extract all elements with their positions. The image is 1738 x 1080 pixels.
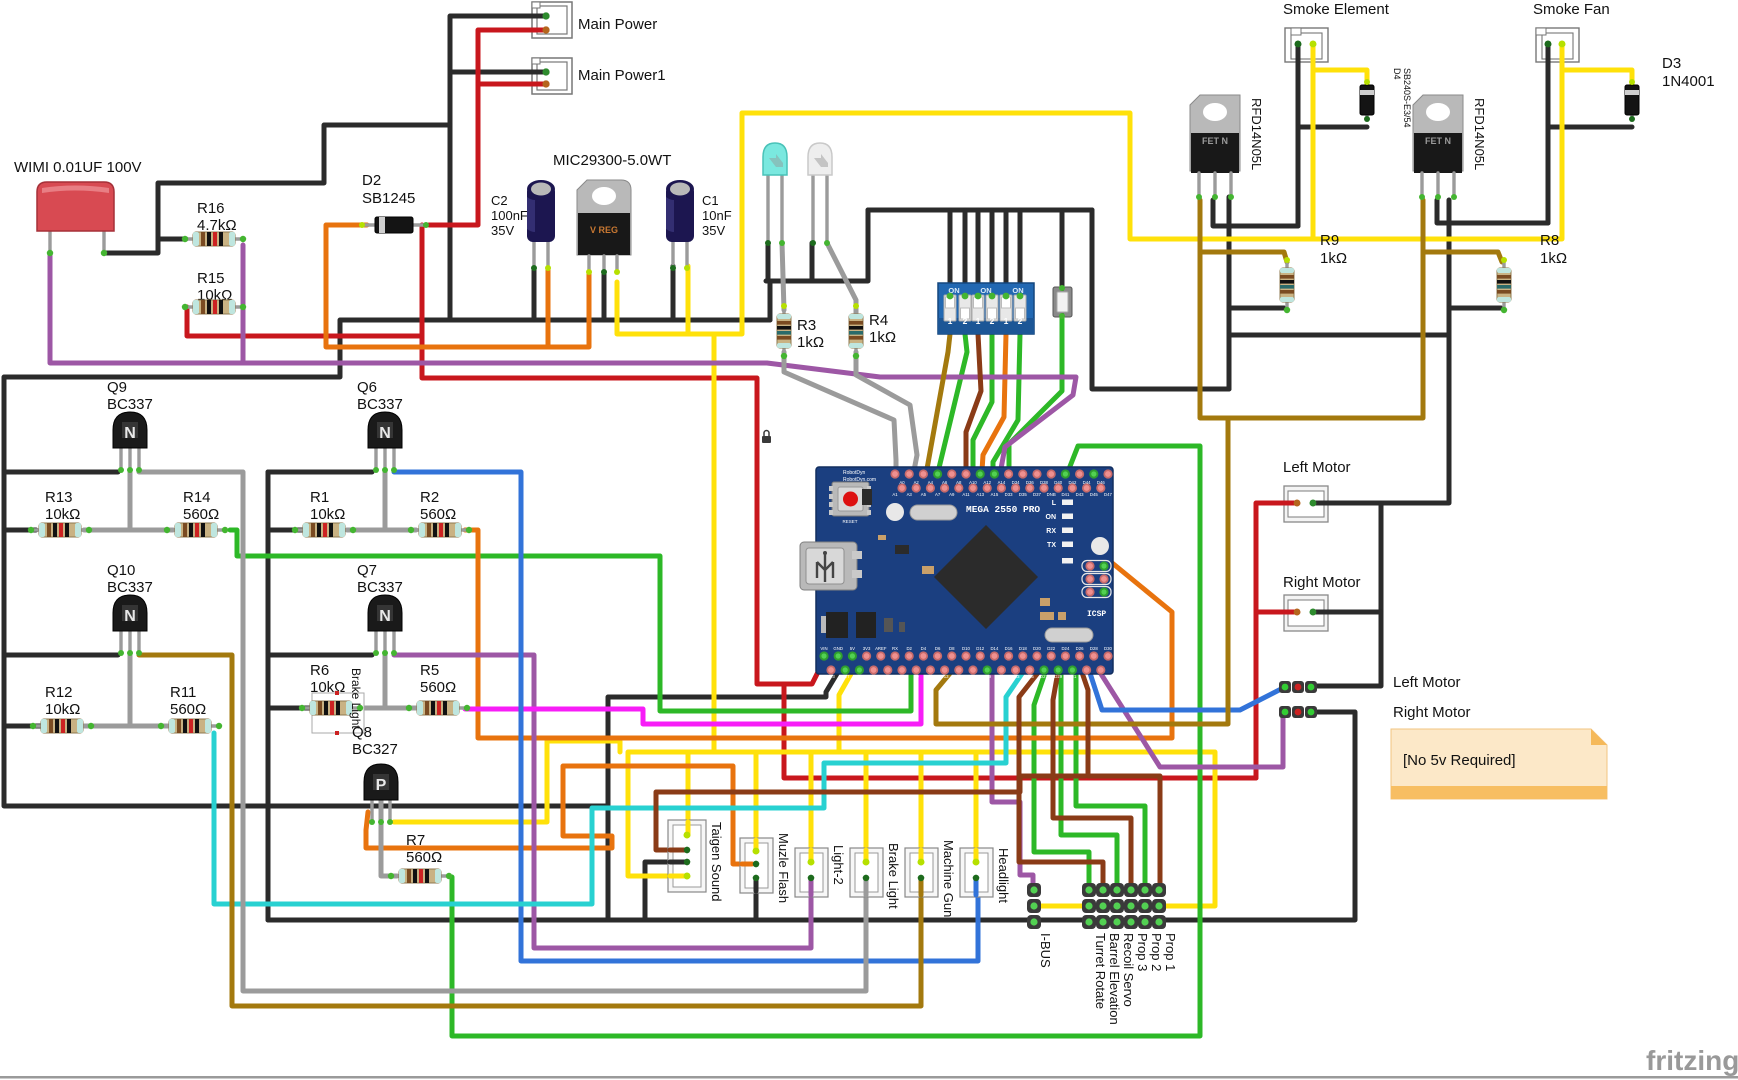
wire stub right motor red [1284,610,1297,615]
wire 5V drop [974,752,979,862]
ICSP pins [1085,561,1108,596]
wire stub machine sig [919,878,924,895]
wire Q9 emitter [4,470,118,475]
svg-text:WIMI 0.01UF 100V: WIMI 0.01UF 100V [14,159,142,176]
svg-text:RFD14N05L: RFD14N05L [1472,98,1487,170]
wire R6 left [268,706,316,711]
wire motor red 2 [1254,612,1259,778]
svg-text:D16: D16 [1005,646,1013,651]
svg-text:Q10: Q10 [107,562,135,579]
wire main power1 red [478,82,546,87]
svg-text:A5: A5 [921,492,927,497]
wire LED gnd link [766,210,868,281]
wire taigen signal [656,776,1085,850]
header Prop 3 [1124,883,1138,929]
svg-text:D44: D44 [1083,480,1091,485]
note No 5v Required [1391,729,1607,799]
svg-text:R2: R2 [420,489,439,506]
svg-text:MEGA 2550 PRO: MEGA 2550 PRO [966,504,1040,515]
svg-text:DNB: DNB [1047,492,1056,497]
svg-text:BC327: BC327 [352,741,398,758]
wire taigen gnd [645,862,687,920]
svg-text:560Ω: 560Ω [406,849,442,866]
wire 5V drop [809,752,814,862]
wire recoil green [1061,670,1117,885]
svg-text:ICSP: ICSP [1087,610,1106,619]
svg-text:D47: D47 [1104,492,1112,497]
wire Q10 base [128,655,133,726]
wire Q9 base [128,472,133,530]
wire D4 anode yellow [1313,70,1367,92]
wire 12Vsw yellow [617,44,1562,334]
wire DIP3 brown [966,334,981,487]
svg-text:Q7: Q7 [357,562,377,579]
svg-text:A1: A1 [892,492,898,497]
wire main-power1 black [450,70,546,75]
wire stub main power1 black [532,70,546,75]
svg-text:RobotDyn: RobotDyn [843,470,865,476]
svg-text:D22: D22 [1047,646,1055,651]
svg-text:D14: D14 [990,646,998,651]
wire stub left motor black [1313,501,1334,506]
svg-text:10nF: 10nF [702,208,732,223]
svg-text:RX: RX [892,646,898,651]
wire Q8 yellow [394,741,620,822]
wire stub light2 sig [809,878,814,895]
wire 12V to motors [784,684,1256,778]
svg-text:D4: D4 [1392,68,1402,80]
wire D3 anode yellow [1562,70,1632,92]
svg-text:A8: A8 [956,480,962,485]
board bottom pin row [819,646,1112,679]
svg-text:R4: R4 [869,312,888,329]
svg-text:D41: D41 [1061,492,1069,497]
svg-text:SB1245: SB1245 [362,190,415,207]
svg-text:Smoke Element: Smoke Element [1283,1,1390,18]
diode D3 [1625,82,1639,118]
svg-text:Prop 2: Prop 2 [1149,933,1164,971]
svg-text:R3: R3 [797,317,816,334]
svg-text:R15: R15 [197,270,225,287]
svg-text:RX: RX [1046,528,1056,535]
wire stub brake sig [864,878,869,895]
header Left Motor pins [1279,681,1317,693]
svg-text:A13: A13 [976,492,984,497]
svg-text:560Ω: 560Ω [420,506,456,523]
svg-text:D31: D31 [1068,674,1076,679]
svg-text:D38: D38 [1040,480,1048,485]
svg-text:BC337: BC337 [357,396,403,413]
wire WIMI purple [50,245,243,363]
svg-text:TX: TX [857,674,863,679]
svg-text:1N4001: 1N4001 [1662,73,1715,90]
svg-text:1: 1 [948,316,953,326]
wire R1-R2 [347,528,416,533]
wire stub smoke element yellow [1311,44,1316,62]
svg-text:Machine Gun: Machine Gun [941,840,956,917]
transistor Q4 RFD14N05L [1190,95,1240,200]
header Turret Rotate [1082,883,1096,929]
svg-text:560Ω: 560Ω [170,701,206,718]
wire DIP drop 2 [963,210,968,296]
wire stub main power1 red [532,82,546,87]
svg-text:Left Motor: Left Motor [1283,459,1351,476]
svg-text:D21: D21 [997,674,1005,679]
svg-text:A4: A4 [928,480,934,485]
resistor R1 [295,523,353,537]
svg-text:A12: A12 [983,480,991,485]
wire R13-R14 [84,528,173,533]
wire R14 to D4 [230,530,911,711]
wire stub light2 5V [809,850,814,862]
wire DIP rail down [1092,210,1229,389]
svg-text:100nF: 100nF [491,208,528,223]
wire DIP drop 6 [1018,210,1023,296]
svg-text:R11: R11 [170,684,196,701]
svg-text:D29: D29 [1054,674,1062,679]
wire R12 left [4,724,42,729]
wire Q8 to muzle [366,766,752,864]
svg-text:ON: ON [1046,514,1057,521]
wire right motor header black [1034,712,1355,920]
svg-text:D35: D35 [1019,492,1027,497]
transistor Q9 [113,412,147,470]
svg-text:10kΩ: 10kΩ [45,701,80,718]
connector Main Power1 [532,58,572,94]
transistor Q10 [113,595,147,653]
svg-text:N: N [124,608,136,625]
wire R12-R11 [84,724,168,729]
resistor R5 [409,701,467,715]
wire R3 to A1 [784,352,896,473]
svg-text:Q6: Q6 [357,379,377,396]
wire R4 to A3 [856,352,917,486]
wire DIP drop 5 [1004,210,1009,296]
svg-text:D4: D4 [921,646,927,651]
connector Smoke Fan [1536,28,1579,62]
header Recoil Servo [1110,883,1124,929]
wire R8 bottom [1449,306,1501,311]
resistor R14 [167,523,225,537]
wire D2 anode orange [326,225,589,347]
svg-text:Brake Light: Brake Light [349,668,363,729]
resistor R6 [312,691,364,735]
svg-text:D42: D42 [1068,480,1076,485]
wire D29 blue [1089,670,1285,710]
wire DIP drop 4 [990,210,995,296]
svg-text:Right Motor: Right Motor [1283,574,1361,591]
wire 5V bus [628,752,1215,906]
resistor R3 [777,306,791,356]
LED cyan [763,143,787,243]
header Prop 2 [1138,883,1152,929]
wire 5V feed [712,334,717,751]
wire D24 to prop3 [1053,655,1131,885]
wire LED2 anode [827,243,856,319]
svg-text:P: P [376,777,387,794]
wire 12V to VIN [422,225,824,684]
svg-text:D36: D36 [1026,480,1034,485]
svg-text:V REG: V REG [590,225,618,235]
svg-text:BC337: BC337 [107,579,153,596]
wire button drop [1060,210,1065,288]
svg-text:D12: D12 [976,646,984,651]
svg-text:D30: D30 [1104,646,1112,651]
wire 5V drop [864,752,869,862]
transistor Q8 [364,764,398,822]
capacitor C2 [527,180,555,268]
wire stub headlight sig [974,878,979,895]
svg-text:Main Power: Main Power [578,16,657,33]
wire button green [1009,316,1062,487]
diode D4 [1360,82,1374,118]
lock icon [762,431,771,444]
svg-text:[No 5v Required]: [No 5v Required] [1403,752,1516,769]
svg-text:L: L [1052,500,1057,507]
resistor R13 [31,523,89,537]
wire stub muzle gnd [754,878,759,891]
svg-text:SB240S-E3/54: SB240S-E3/54 [1402,68,1412,128]
svg-text:AREF: AREF [875,646,887,651]
transistor Q5 RFD14N05L [1413,95,1463,200]
wire Q10 to machine gun [139,655,921,1006]
wire FET1 drain [1213,200,1298,226]
LED white [808,143,832,243]
svg-text:N: N [379,425,391,442]
connector Muzle Flash [740,838,773,893]
wire D20 to R11 [214,656,1034,904]
svg-text:Headlight: Headlight [996,848,1011,903]
svg-text:N: N [124,425,136,442]
wire LED gnd drop [768,281,773,320]
connector Smoke Element [1285,28,1328,62]
svg-text:2: 2 [1018,316,1023,326]
wire R1 left [268,528,302,533]
svg-text:35V: 35V [491,223,514,238]
svg-text:1: 1 [1004,316,1009,326]
svg-text:2: 2 [963,316,968,326]
wire DIP4 green [973,334,992,474]
svg-text:D15: D15 [955,674,963,679]
wire VREG gnd [602,272,607,320]
resistor R2 [411,523,469,537]
connector Main Power [532,2,572,38]
wire Q8 base [381,800,397,876]
Arduino MEGA 2560 PRO U2 [800,467,1113,674]
connector Brake Light [850,848,883,897]
wire stub right motor black [1313,610,1334,615]
wire R9 top [1200,252,1287,262]
wire D22 to barrel [1019,660,1103,885]
wire stub muzle 5V [754,840,759,851]
svg-text:Brake Light: Brake Light [886,843,901,909]
wire stub taigen gnd [670,860,687,865]
DIP switch S1 [938,283,1034,334]
header Right Motor pins [1279,706,1317,718]
wire Q10 emitter [4,653,118,658]
svg-text:3V3: 3V3 [827,674,835,679]
svg-text:Taigen Sound: Taigen Sound [709,822,724,902]
wire stub taigen 5V [686,822,691,835]
svg-text:Main Power1: Main Power1 [578,67,666,84]
resistor R15 [185,300,243,314]
svg-text:Muzle Flash: Muzle Flash [776,833,791,903]
svg-text:N: N [379,608,391,625]
wire DIP6 green [993,334,1020,487]
svg-text:GND: GND [833,646,843,651]
svg-text:D18: D18 [1019,646,1027,651]
wire DIP2 green [938,334,967,472]
svg-text:D3: D3 [1662,55,1681,72]
svg-text:RESET: RESET [842,519,857,524]
svg-text:D45: D45 [1090,492,1098,497]
wire 5V drop [686,752,691,835]
connector Left Motor [1284,486,1328,522]
svg-text:D11: D11 [927,674,935,679]
svg-text:BC337: BC337 [107,396,153,413]
svg-text:D2: D2 [906,646,912,651]
wire header 5V [1033,904,1162,909]
svg-text:5V: 5V [850,646,855,651]
svg-text:D46: D46 [1097,480,1105,485]
svg-text:RST: RST [841,674,850,679]
svg-text:A11: A11 [962,492,970,497]
wire stub smoke fan black [1546,44,1551,62]
svg-text:D27: D27 [1040,674,1048,679]
svg-text:10kΩ: 10kΩ [310,506,345,523]
svg-text:R12: R12 [45,684,73,701]
svg-text:A9: A9 [949,492,955,497]
svg-text:R9: R9 [1320,232,1339,249]
svg-text:D9: D9 [913,674,919,679]
svg-text:VIN: VIN [820,646,827,651]
svg-text:fritzing: fritzing [1646,1045,1738,1076]
svg-text:D43: D43 [1076,492,1084,497]
wire GND pin [608,672,838,920]
wire DIP rail [868,208,1092,213]
svg-text:4.7kΩ: 4.7kΩ [197,217,237,234]
resistor R11 [161,719,219,733]
transistor Q6 [368,412,402,470]
wire main power red [429,30,546,225]
wire stub main power red [532,28,546,33]
wire stub taigen signal [670,848,687,853]
svg-text:C2: C2 [491,193,508,208]
wire Q9 to brake light [139,472,866,991]
svg-text:2: 2 [990,316,995,326]
wire FET1 source down [1227,197,1232,389]
resistor R9 [1280,260,1294,310]
wire purple to A15 [243,363,1076,474]
connector Light-2 [795,848,828,897]
connector Machine Gun [905,848,938,897]
svg-text:A0: A0 [899,480,905,485]
svg-text:D17: D17 [969,674,977,679]
svg-text:R1: R1 [310,489,329,506]
wire ground bus [4,320,770,806]
wire D28 purple [1089,655,1283,767]
svg-text:D13: D13 [941,674,949,679]
svg-text:Left Motor: Left Motor [1393,674,1461,691]
svg-text:A2: A2 [914,480,920,485]
svg-text:R8: R8 [1540,232,1559,249]
wire prop2 green [1076,670,1145,885]
wire Q7 base [383,655,388,708]
svg-text:R5: R5 [420,662,439,679]
wire stub smoke fan yellow [1560,44,1565,62]
svg-text:Prop 1: Prop 1 [1163,933,1178,971]
wire LED1 cathode [766,243,771,281]
connector Right Motor [1284,595,1328,631]
svg-text:A7: A7 [935,492,941,497]
capacitor C1 [666,180,694,268]
connector Headlight [960,848,993,897]
wire D41 to R7 [452,446,1200,1036]
resistor R6 [302,701,360,715]
svg-text:Prop 3: Prop 3 [1135,933,1150,971]
wire 5V pin [839,672,852,752]
wire R8 top [1423,252,1502,262]
wire muzle gnd [754,878,759,920]
svg-text:RFD14N05L: RFD14N05L [1249,98,1264,170]
svg-text:3V3: 3V3 [863,646,871,651]
svg-text:R6: R6 [310,662,329,679]
svg-text:Q8: Q8 [352,724,372,741]
wire DIP1 to A5 [925,334,950,487]
wire Q7 to light2 [394,655,811,948]
svg-text:35V: 35V [702,223,725,238]
svg-text:D25: D25 [1026,674,1034,679]
connector Taigen Sound [668,820,706,892]
wire C1 + [686,266,691,334]
wire left rail 2 [266,472,271,920]
wire R2 to ICSP [465,530,1172,738]
svg-text:1kΩ: 1kΩ [1320,250,1347,267]
wire stub smoke element black [1296,44,1301,62]
wire turret green [1034,670,1089,885]
header Prop 1 [1152,883,1166,929]
svg-text:Turret Rotate: Turret Rotate [1093,933,1108,1009]
capacitor WIMI 0.01UF 100V [37,182,114,253]
svg-text:D40: D40 [1054,480,1062,485]
wire FET2 drain [1437,200,1548,223]
wire stub main power black [532,14,546,19]
wire D15 to IBUS [992,670,1033,890]
wire main-power black [450,16,546,320]
wire LED2 cathode [810,243,815,281]
wire R5 magenta [465,672,921,724]
svg-text:A14: A14 [998,480,1006,485]
svg-text:Recoil Servo: Recoil Servo [1121,933,1136,1007]
wire R15 red [187,307,422,336]
wire Q7 emitter [268,653,372,658]
resistor R7 [391,869,449,883]
wire D26 to prop1 [1076,655,1160,885]
svg-text:D8: D8 [949,646,955,651]
svg-text:D28: D28 [1090,646,1098,651]
transistor Q7 [368,595,402,653]
svg-text:D33: D33 [1005,492,1013,497]
wire stub machine 5V [919,850,924,862]
wire motor red [1256,503,1297,612]
svg-text:D10: D10 [962,646,970,651]
wire smoke element black [1296,43,1301,226]
svg-text:D19: D19 [983,674,991,679]
wire DIP5 orange [981,334,1006,487]
voltage regulator U1 MIC29300 [577,180,631,272]
svg-text:D2: D2 [362,172,381,189]
wire R13 left [4,528,36,533]
